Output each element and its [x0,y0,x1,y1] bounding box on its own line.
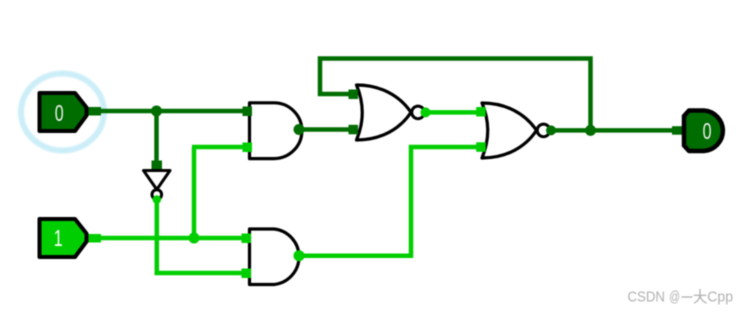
svg-text:0: 0 [703,119,712,145]
svg-text:Cpp: Cpp [707,289,733,306]
input pin X1 value 0 [40,93,87,131]
wire: AND1 output to NOR1 bottom input [294,124,355,135]
svg-text:@: @ [669,289,680,306]
wire: junction up to AND1 bottom input [192,147,197,238]
wire: junction down to NOT input [152,111,163,170]
wire: NOR1 output to NOR2 top input [421,107,480,117]
wire: NOR2 output to output pin [546,125,676,135]
node: junction on output wire [585,125,596,136]
wire: AND2 output right, up, to NOR2 bottom input [294,147,480,261]
NOT gate [144,171,171,200]
AND gate 2 [242,229,300,285]
AND gate 1 [243,103,302,159]
wire: NOT output down and right to AND2 bottom input [153,195,247,273]
node: junction on X1 wire [151,106,162,117]
svg-text:0: 0 [55,101,64,127]
wire: pin X2 to AND2 top input [84,234,246,243]
node: junction on X2 wire [189,233,200,244]
input pin X2 value 1 [40,219,87,257]
watermark CSDN [628,289,734,306]
wire: pin X1 to AND1 top input [84,107,247,116]
svg-text:1: 1 [54,226,63,252]
NOR gate 1 [349,85,425,140]
wire: feedback from junction to NOR1 top input [320,59,591,131]
selection halo around input pin [21,74,104,151]
output pin value 0 [672,111,723,152]
NOR gate 2 [476,103,550,158]
svg-text:CSDN: CSDN [628,289,666,306]
